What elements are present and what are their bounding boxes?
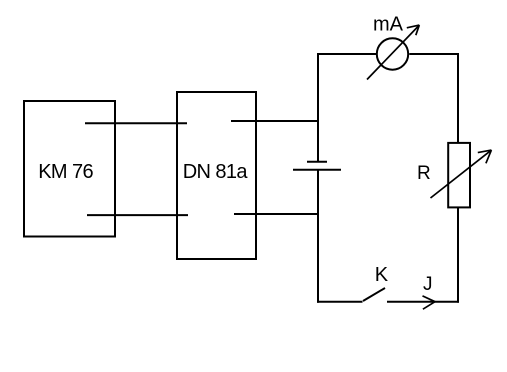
svg-text:KM 76: KM 76 xyxy=(38,161,93,183)
svg-text:mA: mA xyxy=(373,14,404,36)
svg-text:K: K xyxy=(375,264,389,286)
svg-text:R: R xyxy=(417,163,431,184)
svg-text:DN 81a: DN 81a xyxy=(183,161,249,183)
svg-text:J: J xyxy=(423,274,433,295)
